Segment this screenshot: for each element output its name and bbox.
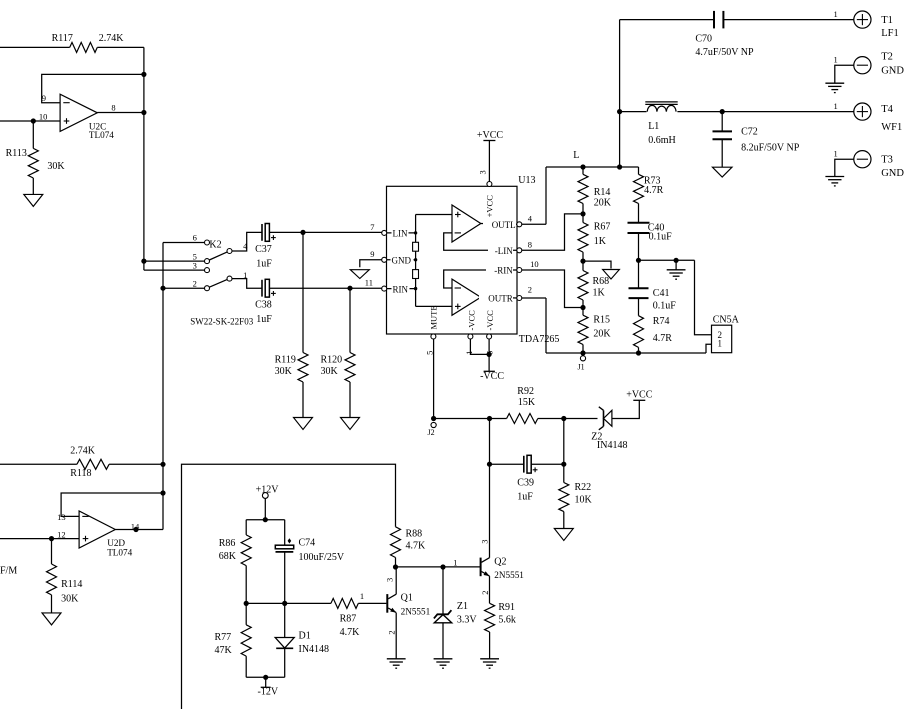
svg-text:2: 2 [387, 630, 397, 634]
svg-text:R77: R77 [215, 632, 232, 643]
ground [24, 194, 43, 206]
resistor R88 [391, 527, 401, 558]
IC U13 body [387, 186, 518, 334]
svg-text:SW22-SK-22F03: SW22-SK-22F03 [190, 316, 254, 326]
wire [721, 112, 723, 132]
svg-text:1: 1 [718, 339, 723, 349]
pin 1 label [464, 351, 474, 355]
pin 3 label [193, 261, 197, 271]
wire [246, 519, 285, 521]
wire [522, 214, 583, 250]
svg-text:20K: 20K [594, 198, 612, 209]
node junction [674, 258, 679, 263]
svg-text:12: 12 [57, 529, 66, 539]
pin 3 label [479, 539, 489, 543]
pin 2 label [528, 285, 532, 295]
label C70 [695, 33, 712, 44]
svg-text:5.6k: 5.6k [498, 615, 516, 626]
label 47K [215, 645, 233, 656]
node junction [141, 110, 146, 115]
plus mark C38 [271, 291, 276, 296]
resistor R118 [77, 459, 109, 469]
svg-text:OUTR: OUTR [488, 293, 513, 303]
label RIN [392, 285, 410, 295]
resistor R86 [241, 535, 251, 566]
svg-text:+VCC: +VCC [626, 390, 653, 401]
pin 1 label [360, 591, 364, 601]
svg-text:LF1: LF1 [881, 28, 899, 39]
svg-text:3: 3 [478, 170, 488, 174]
svg-text:RIN: RIN [393, 285, 409, 295]
label U13 [518, 175, 535, 186]
wire [563, 512, 565, 529]
wire [163, 287, 205, 289]
resistor R114 [47, 564, 57, 595]
node junction [487, 352, 492, 357]
label 1uF [256, 314, 272, 325]
svg-text:4.7uF/50V NP: 4.7uF/50V NP [695, 47, 754, 58]
resistor R87 [331, 598, 358, 608]
pin 11 RIN [382, 286, 387, 291]
op-amp U13A minus [455, 232, 461, 234]
label R73 [644, 176, 661, 187]
wire [638, 233, 640, 288]
wire [706, 344, 712, 353]
pin 8 label [528, 240, 532, 250]
label Q1 [401, 593, 413, 604]
svg-text:C70: C70 [695, 33, 712, 44]
label 30K [61, 594, 79, 605]
svg-text:1: 1 [360, 591, 364, 601]
svg-text:68K: 68K [219, 551, 237, 562]
node junction [31, 118, 36, 123]
svg-text:LIN: LIN [393, 229, 408, 239]
wire [349, 288, 351, 352]
svg-text:3.3V: 3.3V [457, 615, 478, 626]
wire [545, 167, 547, 224]
svg-text:30K: 30K [321, 366, 339, 377]
label R119 [275, 354, 296, 365]
wire [284, 648, 286, 677]
pin 4 label [528, 214, 533, 224]
label R120 [321, 354, 343, 365]
wire [489, 576, 491, 603]
label 1uF [517, 491, 533, 502]
label D1 [299, 630, 311, 641]
label LF1 [881, 28, 899, 39]
wire [638, 347, 640, 353]
svg-text:1uF: 1uF [517, 491, 533, 502]
ground [603, 270, 620, 280]
pin 6 label [485, 351, 495, 355]
pin 5 label [193, 251, 197, 261]
pin 1 -VCC [468, 334, 473, 339]
label 4.7R [653, 333, 673, 344]
svg-text:30K: 30K [47, 161, 65, 172]
wire [143, 47, 145, 270]
label +12V [256, 484, 280, 495]
wire [583, 261, 611, 268]
wire [538, 418, 598, 420]
label TL074 [89, 130, 114, 140]
svg-text:T3: T3 [881, 154, 893, 165]
wire [232, 279, 262, 289]
label R67 [594, 222, 611, 233]
terminal T4 [854, 103, 871, 120]
resistor R15 [578, 315, 588, 344]
svg-text:R22: R22 [575, 482, 592, 493]
resistor R73 [634, 174, 644, 203]
wire [470, 339, 489, 354]
label T3 [881, 154, 893, 165]
wire [416, 214, 452, 216]
pin 10 label [530, 259, 539, 269]
label WF1 [881, 122, 902, 133]
pin 9 label [370, 249, 374, 259]
node junction [561, 416, 566, 421]
label 2N5551 [494, 570, 524, 580]
svg-text:4: 4 [528, 214, 533, 224]
wire [0, 46, 70, 48]
wire [620, 111, 647, 113]
label 20K [593, 328, 611, 339]
label Z2 [591, 432, 602, 443]
label J2 [428, 428, 435, 437]
wire [721, 139, 723, 167]
svg-text:8.2uF/50V NP: 8.2uF/50V NP [741, 143, 800, 154]
svg-text:R118: R118 [70, 468, 91, 479]
wire [546, 166, 639, 168]
label 0.1uF [649, 232, 673, 243]
wire [32, 178, 34, 194]
label U2C [89, 121, 106, 131]
op-amp U2D plus [83, 536, 89, 542]
wire [490, 463, 524, 465]
wire [395, 558, 397, 568]
wire [115, 529, 163, 531]
svg-text:0.1uF: 0.1uF [653, 301, 677, 312]
wire [639, 259, 695, 261]
pin 10 -RIN [517, 268, 522, 273]
svg-text:1K: 1K [594, 236, 607, 247]
label R114 [61, 579, 82, 590]
terminal T1 [854, 11, 871, 28]
wire [144, 269, 205, 271]
capacitor C72 [713, 131, 733, 139]
op-amp U13A [452, 205, 481, 242]
node junction [580, 259, 585, 264]
label R22 [575, 482, 592, 493]
svg-text:J2: J2 [428, 428, 435, 437]
label LIN [392, 229, 409, 239]
label R87 [340, 614, 357, 625]
transistor Q1 [387, 594, 396, 613]
ground [294, 418, 313, 430]
label 20K [594, 198, 612, 209]
pin 13 label [57, 512, 66, 522]
svg-text:3: 3 [479, 539, 489, 543]
label 0.6mH [648, 135, 676, 146]
svg-text:3: 3 [193, 261, 197, 271]
svg-text:5: 5 [424, 351, 434, 355]
label R88 [406, 528, 423, 539]
svg-text:K2: K2 [209, 239, 221, 250]
power +12V [262, 493, 268, 499]
wire [0, 538, 79, 540]
node junction [561, 462, 566, 467]
svg-text:+VCC: +VCC [485, 195, 495, 218]
node junction [440, 564, 445, 569]
node junction [414, 258, 417, 261]
node junction J2 [431, 416, 436, 421]
wire [97, 112, 144, 114]
label 4.7uF/50V NP [695, 47, 754, 58]
wire [0, 463, 77, 465]
diode Z2 [599, 407, 612, 430]
resistor R68 [578, 271, 588, 301]
label -RIN [486, 266, 513, 276]
label 30K [321, 366, 339, 377]
resistor R74 [634, 316, 644, 348]
label L1 [648, 121, 659, 132]
pin 6 label [193, 233, 197, 243]
ground [712, 167, 732, 177]
label T1 [881, 15, 893, 26]
wire [444, 270, 517, 288]
node junction [282, 601, 287, 606]
label OUTL [483, 220, 516, 230]
connector CN5A [712, 325, 732, 353]
capacitor C38 [262, 279, 269, 297]
label C37 [255, 244, 272, 255]
ground [667, 270, 686, 279]
svg-text:2: 2 [193, 278, 197, 288]
ground [825, 83, 844, 92]
svg-text:20K: 20K [593, 328, 611, 339]
wire [531, 463, 563, 465]
svg-text:30K: 30K [61, 594, 79, 605]
node junction [580, 305, 585, 310]
wire [285, 602, 331, 604]
wire [677, 111, 853, 113]
resistor R14 [578, 174, 588, 203]
terminal T3 [854, 151, 871, 168]
op-amp U2D minus [82, 515, 88, 517]
wire [32, 121, 34, 148]
wire [442, 567, 444, 614]
wire [358, 602, 386, 604]
svg-text:C39: C39 [517, 478, 534, 489]
pin 12 label [57, 529, 66, 539]
svg-text:D1: D1 [299, 630, 311, 641]
wire [51, 595, 53, 613]
wire [522, 270, 583, 308]
wire [265, 677, 267, 687]
pin 11 label [365, 277, 373, 287]
svg-text:R86: R86 [219, 538, 236, 549]
resistor R92 [507, 414, 538, 424]
node junction [636, 258, 641, 263]
pin 5 MUTE [431, 334, 436, 339]
svg-text:IN4148: IN4148 [597, 440, 628, 451]
label 5.6k [498, 615, 516, 626]
label -VCC [480, 371, 504, 382]
wire [695, 260, 712, 335]
wire [162, 243, 164, 530]
capacitor C39 [524, 455, 531, 473]
op-amp U2D [79, 511, 115, 548]
capacitor C41 [629, 288, 649, 298]
svg-text:R74: R74 [653, 316, 670, 327]
svg-text:1: 1 [243, 270, 247, 280]
op-amp U13B minus [455, 287, 461, 289]
svg-text:R88: R88 [406, 528, 423, 539]
svg-text:U13: U13 [518, 175, 535, 186]
ground [387, 659, 406, 668]
label R14 [594, 187, 611, 198]
label R118 [70, 468, 91, 479]
ground [554, 529, 573, 541]
svg-text:8: 8 [528, 240, 532, 250]
wire [638, 298, 640, 316]
wire [582, 300, 584, 315]
svg-text:7: 7 [370, 222, 374, 232]
svg-text:10: 10 [530, 259, 539, 269]
wire [284, 552, 286, 638]
label 2.74K [99, 33, 125, 44]
wire [302, 382, 304, 418]
svg-text:C37: C37 [255, 244, 272, 255]
label C38 [255, 299, 272, 310]
svg-text:1: 1 [453, 558, 457, 568]
wire [582, 345, 584, 354]
label 100uF/25V [299, 552, 345, 563]
internal resistor [413, 270, 419, 279]
svg-text:4: 4 [243, 241, 248, 251]
resistor R77 [241, 625, 251, 656]
plus mark C74 [288, 538, 292, 543]
label R113 [6, 148, 27, 159]
node junction [263, 517, 268, 522]
wire [270, 231, 382, 233]
wire [245, 656, 247, 677]
node junction [720, 109, 725, 114]
wire [387, 288, 416, 290]
svg-text:C38: C38 [255, 299, 272, 310]
wire [488, 339, 490, 371]
op-amp U13B [452, 279, 481, 315]
switch K2 pin 6 [205, 240, 210, 245]
node junction [414, 287, 417, 290]
node junction [160, 490, 165, 495]
svg-text:2.74K: 2.74K [99, 33, 125, 44]
label 30K [47, 161, 65, 172]
wire [433, 339, 435, 419]
label C39 [517, 478, 534, 489]
label 0.1uF [653, 301, 677, 312]
svg-text:15K: 15K [518, 397, 536, 408]
label -VCC [485, 310, 495, 331]
label GND [391, 256, 414, 266]
transistor Q2 [481, 558, 490, 577]
svg-text:1uF: 1uF [256, 314, 272, 325]
wire [434, 418, 507, 420]
svg-text:Q1: Q1 [401, 593, 413, 604]
pin 2 label [387, 630, 397, 634]
wire [415, 215, 417, 307]
label 30K [275, 366, 293, 377]
pin 1 label [243, 270, 247, 280]
label C74 [299, 537, 316, 548]
label 1uF [256, 259, 272, 270]
svg-text:OUTL: OUTL [492, 220, 516, 230]
resistor R22 [559, 483, 569, 512]
svg-text:T4: T4 [881, 104, 893, 115]
net label F/M [0, 565, 17, 576]
wire [835, 65, 854, 83]
label -LIN [488, 246, 513, 256]
svg-text:6: 6 [193, 233, 197, 243]
zener Z1 [434, 610, 452, 623]
svg-text:0.6mH: 0.6mH [648, 135, 676, 146]
svg-text:U2D: U2D [107, 538, 125, 548]
pin 2 OUTR [517, 296, 522, 301]
svg-text:TL074: TL074 [107, 548, 132, 558]
switch K2 arm contact [227, 276, 232, 281]
ground [350, 270, 369, 279]
svg-text:2: 2 [528, 285, 532, 295]
op-amp U2C minus [63, 102, 69, 104]
label C72 [741, 126, 758, 137]
label +VCC [626, 390, 653, 401]
svg-text:GND: GND [392, 256, 412, 266]
pin 14 label [131, 522, 140, 532]
resistor R117 [70, 42, 98, 52]
wire [97, 46, 144, 48]
svg-text:T1: T1 [881, 15, 893, 26]
wire [246, 676, 285, 678]
svg-text:R113: R113 [6, 148, 27, 159]
svg-text:L: L [573, 150, 579, 161]
capacitor C37 [262, 224, 269, 242]
wire [619, 20, 621, 167]
pin 8 label [111, 102, 115, 112]
label R77 [215, 632, 232, 643]
wire [349, 382, 351, 418]
pin 9 label [42, 93, 46, 103]
label 1K [593, 288, 606, 299]
pin 1 label [453, 558, 457, 568]
wire [481, 296, 517, 299]
svg-text:+VCC: +VCC [477, 130, 504, 141]
inductor L1 [645, 102, 677, 112]
pin 9 GND [382, 257, 387, 262]
node junction [263, 675, 268, 680]
node junction J1 [580, 350, 585, 355]
svg-text:GND: GND [881, 168, 904, 179]
label 68K [219, 551, 237, 562]
pin 10 label [39, 111, 48, 121]
svg-text:2N5551: 2N5551 [494, 570, 524, 580]
node junction [487, 462, 492, 467]
wire [835, 159, 854, 176]
node junction [244, 601, 249, 606]
label 10K [575, 494, 593, 505]
svg-text:R67: R67 [594, 222, 611, 233]
label R91 [498, 602, 515, 613]
label J1 [578, 363, 585, 372]
wire [489, 419, 491, 558]
